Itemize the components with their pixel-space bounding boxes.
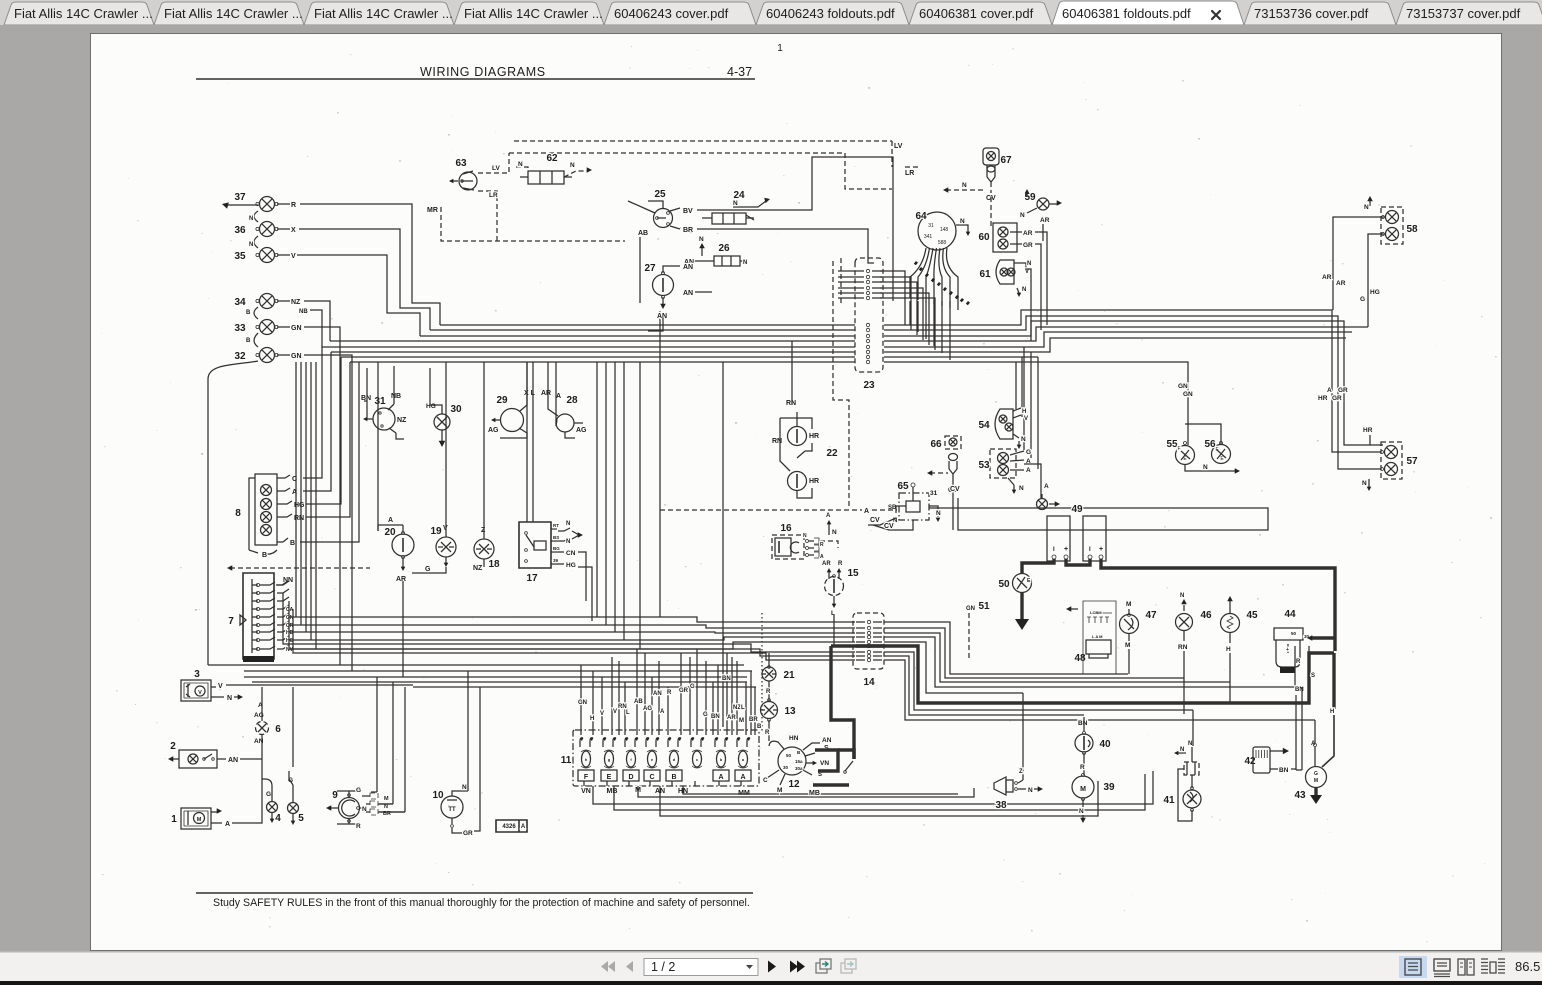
svg-text:8: 8 [235,508,241,519]
wire ignition 12 thick leads [813,750,854,785]
wire lamp 32 B drop [208,361,258,665]
wire 64 drops to bus [910,301,950,360]
svg-text:V: V [613,709,617,715]
svg-text:R: R [820,542,824,548]
toolbar [0,951,1542,981]
svg-text:HR: HR [809,478,819,485]
plate 4326A [496,820,527,832]
lamp 32 [234,348,301,363]
svg-text:BN: BN [722,676,731,682]
svg-text:I: I [1053,547,1055,553]
svg-text:G: G [1026,449,1031,456]
gauge 13 [760,699,796,741]
connector 23 [855,258,883,391]
svg-text:RN: RN [786,400,796,407]
svg-text:N: N [249,216,253,222]
svg-text:N: N [249,242,253,248]
svg-text:66: 66 [930,439,942,450]
svg-text:G: G [425,566,431,573]
svg-text:GN: GN [291,353,302,360]
flasher unit 22 [772,341,838,498]
svg-text:N: N [1180,593,1184,599]
svg-text:M: M [384,796,389,802]
svg-text:31: 31 [930,490,938,497]
svg-text:N: N [566,521,570,527]
svg-text:N: N [1028,787,1033,794]
headlamp 54 [978,408,1028,449]
svg-text:N: N [1364,204,1369,211]
lamp 4 [262,779,281,824]
svg-text:AN: AN [683,264,693,271]
svg-text:BN: BN [1279,767,1289,774]
flasher 3 [181,669,413,702]
svg-text:12: 12 [788,779,800,790]
svg-text:TT: TT [448,807,456,813]
svg-text:RN: RN [1178,644,1188,651]
wire lamp 37 R riser [300,204,440,325]
dynamo 9 [326,787,367,830]
svg-text:b: b [720,757,723,762]
svg-text:R: R [291,202,296,209]
ammeter 10 [432,671,480,837]
svg-text:AN: AN [657,313,667,320]
wire lamp 33 GN drop [304,327,340,665]
svg-text:Fiat Allis 14C Crawler ...: Fiat Allis 14C Crawler ... [314,6,453,21]
svg-text:60: 60 [978,232,990,243]
svg-text:LV: LV [492,165,500,172]
page footer safety note [196,893,753,909]
svg-text:B: B [246,310,251,316]
svg-text:N: N [227,695,232,702]
svg-text:73153737 cover.pdf: 73153737 cover.pdf [1406,6,1521,21]
lamp block 8 [235,474,305,559]
svg-text:30: 30 [450,404,462,415]
svg-text:R: R [667,690,672,696]
svg-text:CV: CV [884,523,894,530]
svg-text:M: M [197,817,202,823]
lamp cluster 61 [979,260,1031,341]
svg-text:11: 11 [561,755,572,766]
svg-text:V: V [1024,416,1028,422]
svg-text:WIRING DIAGRAMS: WIRING DIAGRAMS [420,65,546,79]
svg-text:BG: BG [553,546,560,551]
svg-text:HR: HR [1318,395,1328,402]
svg-text:g: g [608,757,611,762]
svg-text:9: 9 [332,790,338,801]
svg-text:N: N [1020,212,1025,219]
svg-text:L: L [741,705,745,711]
svg-text:30: 30 [783,765,789,770]
wire switch panel outputs [593,771,1153,816]
fuse 6 [254,687,281,759]
svg-text:53: 53 [978,460,990,471]
svg-text:7: 7 [228,616,234,627]
svg-text:19: 19 [430,526,442,537]
svg-text:AN: AN [653,691,662,697]
svg-text:B: B [290,540,295,547]
lamp 33 [234,320,301,335]
svg-text:64: 64 [915,211,927,222]
svg-text:50: 50 [998,579,1010,590]
gauge 19 [412,362,456,573]
svg-text:R: R [838,561,843,567]
svg-text:AR: AR [396,576,406,583]
wire mid bus rows [296,617,855,649]
svg-text:G: G [703,712,708,718]
svg-text:34: 34 [234,297,246,308]
svg-text:AB: AB [634,699,643,705]
svg-text:10: 10 [432,790,444,801]
svg-text:GR: GR [679,688,689,694]
starter switch 50 [998,574,1031,593]
svg-text:HG: HG [426,403,436,410]
relay 17 [519,362,592,621]
svg-text:NB: NB [391,393,401,400]
svg-text:X: X [291,227,296,234]
battery 49b [1083,516,1106,561]
svg-text:R: R [1296,659,1301,665]
svg-text:GN: GN [1178,383,1188,390]
svg-text:AR: AR [1040,217,1050,224]
fuse 26 [684,236,748,266]
svg-text:33: 33 [234,323,246,334]
svg-text:N: N [803,533,807,539]
svg-text:35: 35 [234,251,246,262]
wire battery thick links [1022,559,1335,651]
svg-text:45: 45 [1246,610,1258,621]
svg-text:60406243 cover.pdf: 60406243 cover.pdf [614,6,729,21]
gauge 47 [1120,601,1157,674]
svg-text:AG: AG [488,427,499,434]
svg-text:N: N [936,510,941,517]
svg-text:BR: BR [749,717,758,723]
svg-text:2: 2 [170,741,176,752]
svg-text:S: S [818,772,822,778]
svg-text:67: 67 [1000,155,1012,166]
svg-text:AN: AN [822,737,832,744]
wire connector 23 upper stubs [838,271,935,350]
svg-text:38: 38 [995,800,1007,811]
wire lamp 35 V riser [297,255,420,336]
svg-text:M: M [739,718,744,724]
svg-text:HG: HG [1370,289,1380,296]
sensor 67 [943,148,1012,229]
svg-text:41: 41 [1163,795,1175,806]
wire lower bus drops to generator and ammeter [371,677,405,812]
svg-text:AR: AR [1023,230,1033,237]
svg-text:N: N [570,162,575,169]
svg-text:A: A [826,513,831,519]
svg-text:B: B [757,724,762,730]
sender 28 [541,362,587,438]
svg-text:F: F [584,774,589,781]
connector 14 [853,613,884,688]
svg-text:B: B [671,774,676,781]
wire drops into switch panel [581,649,755,735]
svg-text:39: 39 [1103,782,1115,793]
svg-text:N: N [743,260,747,266]
wire 43 and 42 risers [1193,687,1315,770]
svg-text:27: 27 [644,263,656,274]
svg-text:N: N [1079,808,1084,815]
svg-text:+: + [1286,647,1289,653]
sender 29 [488,362,536,438]
svg-text:A: A [556,393,561,400]
wire dashed vertical harness at connector 23 [833,258,849,506]
connector strip 7 [227,565,370,662]
svg-text:21: 21 [783,670,795,681]
svg-text:AR: AR [822,561,831,567]
svg-text:BN: BN [1078,720,1088,727]
svg-text:N: N [1022,287,1026,293]
svg-text:15a: 15a [795,759,803,764]
wire 44 tails [1295,646,1315,770]
svg-text:MB: MB [607,788,618,795]
svg-text:HG: HG [566,562,576,569]
svg-text:A: A [521,824,526,830]
svg-text:32: 32 [234,351,246,362]
gauge 20 [378,362,414,677]
svg-text:G: G [1314,771,1318,777]
svg-text:A: A [1327,387,1332,394]
svg-text:V: V [291,253,296,260]
fuse block 42 [1244,747,1296,774]
lamp pair 58 [1322,196,1418,327]
svg-text:N: N [1021,436,1026,443]
svg-text:18: 18 [488,559,500,570]
svg-text:GR: GR [1338,387,1348,394]
svg-text:L A M: L A M [1092,634,1103,639]
horn 38 [994,693,1043,811]
ignition switch 64 [915,211,970,250]
wire strip 7 tails [277,581,855,660]
wire upper bus bundle left [322,325,855,362]
lamp pair 57 [1318,387,1418,491]
wire mid risers left [289,362,316,649]
svg-text:RT: RT [553,523,559,528]
svg-text:60406243 foldouts.pdf: 60406243 foldouts.pdf [766,6,895,21]
svg-text:13: 13 [784,706,796,717]
svg-text:31: 31 [928,223,934,229]
svg-text:VN: VN [581,788,591,795]
svg-text:56: 56 [1204,439,1216,450]
svg-text:N: N [518,161,523,168]
valve 15 [822,561,859,646]
svg-text:A: A [864,508,869,515]
gauge 46 [1176,593,1212,714]
connector 9 pins [362,793,405,817]
svg-text:A: A [1026,467,1031,474]
gauge 18 [473,362,500,572]
starter 43 [1294,741,1326,804]
lamp 59 [1020,189,1062,241]
svg-text:M: M [1126,601,1131,608]
browser tab bar [0,0,1542,33]
svg-text:f: f [630,757,632,762]
svg-text:GN: GN [578,700,587,706]
svg-text:14: 14 [863,677,875,688]
wire lamp 32 GN drop [304,355,352,671]
svg-text:37: 37 [234,192,246,203]
svg-text:AR: AR [541,390,551,397]
svg-text:26: 26 [718,243,730,254]
svg-text:G: G [266,791,271,798]
svg-text:V: V [198,690,202,696]
svg-text:57: 57 [1406,456,1418,467]
svg-text:1: 1 [777,43,783,54]
wire risers to 53 54 [1016,347,1038,469]
svg-text:5: 5 [298,813,304,824]
wiper motor 16 [772,513,838,560]
svg-text:A: A [718,774,723,781]
svg-text:S: S [1311,673,1315,679]
svg-text:A: A [225,821,230,828]
switch 41 [1163,741,1201,821]
svg-text:L: L [626,710,630,716]
wire block 8 risers [300,347,359,542]
svg-text:GR: GR [1023,242,1033,249]
svg-text:X L: X L [524,390,536,397]
wire thick feed to 44 and starter [1307,635,1334,767]
regulator 31 [361,366,407,439]
svg-text:H: H [1022,409,1026,415]
svg-text:G: G [356,787,361,794]
svg-text:A: A [740,774,745,781]
relay 65 [868,481,1268,530]
svg-text:BS: BS [553,535,559,540]
svg-text:4326: 4326 [502,824,516,830]
svg-text:55: 55 [1166,439,1178,450]
gauge 27 [644,263,712,331]
svg-text:AR: AR [727,715,736,721]
svg-text:Fiat Allis 14C Crawler ...: Fiat Allis 14C Crawler ... [164,6,303,21]
svg-text:16: 16 [780,523,792,534]
svg-text:588: 588 [938,240,947,246]
svg-text:65: 65 [897,481,909,492]
svg-text:VN: VN [820,760,829,767]
svg-text:MR: MR [427,207,438,214]
svg-text:C: C [649,774,654,781]
svg-text:N: N [960,218,965,225]
svg-text:N: N [1027,261,1031,267]
svg-text:GN: GN [1183,391,1193,398]
svg-text:LCBM: LCBM [1090,610,1102,615]
svg-text:AG: AG [643,706,652,712]
svg-text:N: N [566,539,570,545]
svg-text:54: 54 [978,420,990,431]
svg-text:3: 3 [194,669,200,680]
svg-text:Z: Z [1019,769,1023,775]
svg-text:A: A [820,554,824,560]
svg-text:NB: NB [299,309,308,315]
svg-text:NZ: NZ [473,565,483,572]
svg-text:N: N [962,182,967,189]
svg-text:BV: BV [683,208,693,215]
lamp cluster 60 [978,223,1047,330]
svg-text:HR: HR [1363,427,1373,434]
svg-text:LR: LR [905,170,914,177]
svg-text:N: N [1019,485,1024,492]
svg-text:M: M [1080,786,1086,793]
svg-text:50: 50 [786,753,792,758]
svg-text:62: 62 [546,153,558,164]
svg-text:AB: AB [638,230,648,237]
relay 40 [1075,717,1111,775]
svg-text:CN: CN [566,550,576,557]
svg-text:N: N [1180,747,1184,753]
wire lamp column links [222,202,308,347]
lamp 21 [762,653,795,701]
svg-text:Study SAFETY RULES in the fron: Study SAFETY RULES in the front of this … [213,897,750,909]
wire lamp 36 X riser [299,229,430,330]
svg-text:50: 50 [1291,631,1297,636]
wire lower bus rows [208,665,756,687]
svg-text:N: N [1362,480,1367,487]
switch 2 [168,741,262,768]
svg-text:A: A [388,517,393,524]
page sheet header [196,43,783,79]
svg-text:V: V [600,711,604,717]
wire ignition 64 harness fan [910,248,970,310]
svg-text:23: 23 [863,380,875,391]
svg-text:AR: AR [1336,280,1346,287]
switch panel 11 [561,730,853,786]
svg-text:H: H [1330,709,1334,715]
svg-text:GN: GN [291,325,302,332]
fuse block 48 [1066,601,1116,674]
ground below 50 [1015,593,1029,630]
svg-text:17: 17 [526,573,538,584]
svg-text:+: + [1099,546,1103,553]
svg-text:1: 1 [171,814,177,825]
motor 1 [171,759,262,829]
gauge 30 [426,368,462,447]
svg-text:R: R [1080,764,1085,771]
lamp pair 53 [978,449,1049,498]
svg-text:M: M [777,787,782,794]
svg-text:46: 46 [1200,610,1212,621]
svg-text:GR: GR [463,830,473,837]
svg-text:73153736 cover.pdf: 73153736 cover.pdf [1254,6,1369,21]
svg-text:V: V [218,683,223,690]
svg-text:D: D [628,774,633,781]
svg-text:V: V [1025,269,1029,275]
wire dashed A line [660,508,897,515]
svg-text:R: R [765,730,770,736]
wire 25 loops [640,157,893,303]
svg-text:E: E [607,774,612,781]
svg-text:22: 22 [826,448,838,459]
svg-text:c: c [696,757,699,762]
svg-text:AG: AG [576,427,587,434]
wire lamp 34 NZ NB riser [304,301,330,347]
svg-text:AN: AN [683,290,693,297]
svg-text:AR: AR [1322,274,1332,281]
svg-text:N: N [1188,741,1192,747]
svg-text:40: 40 [1099,739,1111,750]
svg-text:NZ: NZ [291,299,301,306]
svg-text:+: + [1064,546,1068,553]
connector 51 [966,601,990,661]
lamp 34 [234,294,301,309]
svg-text:4-37: 4-37 [727,65,752,79]
svg-text:HN: HN [789,735,799,742]
svg-text:48: 48 [1074,653,1086,664]
svg-text:86.5: 86.5 [1515,959,1540,974]
fuel pump 44 [1274,609,1310,673]
svg-text:CV: CV [870,517,880,524]
svg-text:1 / 2: 1 / 2 [651,960,675,974]
